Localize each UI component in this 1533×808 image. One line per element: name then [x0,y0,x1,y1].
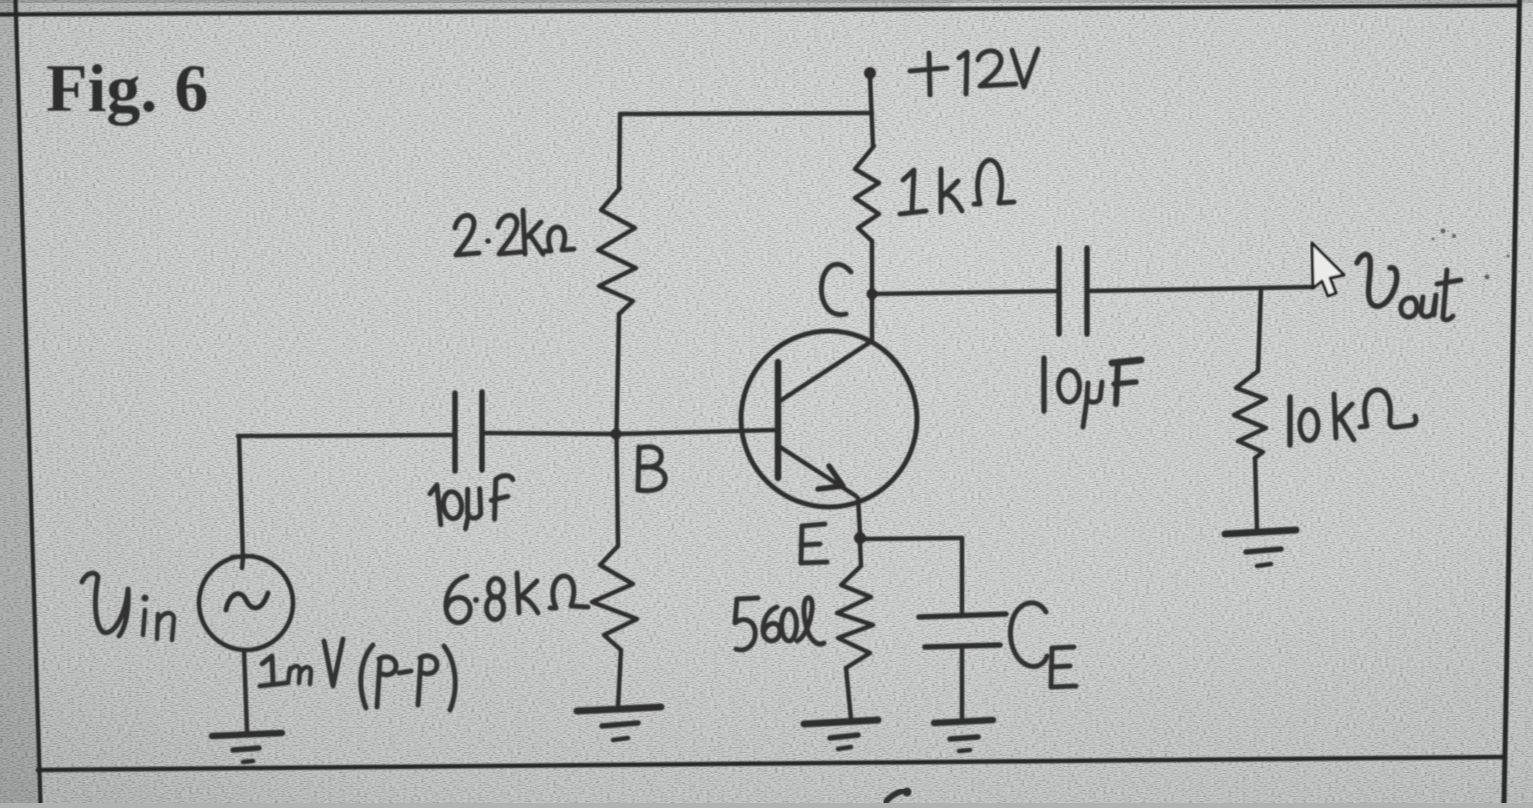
svg-text:Fig. 6: Fig. 6 [46,50,208,126]
